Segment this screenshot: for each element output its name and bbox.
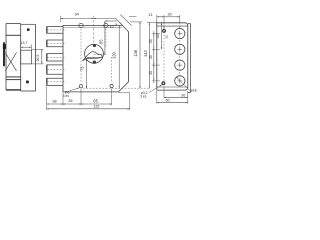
arrow 64 right at centerline	[92, 18, 94, 19]
bolt prong 4	[47, 65, 63, 74]
arrow 130 top	[119, 26, 120, 28]
leader o3,2 arrowhead	[160, 85, 162, 87]
front view: body outline	[63, 25, 129, 92]
dim line 55	[160, 23, 162, 50]
bolt circle 3 (ø18)	[175, 60, 185, 70]
ext tick at bolt level 33.5	[152, 33, 160, 35]
ext from chamfer bottom	[119, 92, 130, 94]
chain arrow up at 33.5	[153, 34, 154, 36]
arrow row1 far left	[47, 103, 49, 104]
arrow row1 at 81 left	[81, 103, 83, 104]
dim line chamfer row	[105, 20, 117, 22]
chain arrow up at 49.3	[153, 49, 154, 51]
arrow 26,5 bottom	[41, 62, 42, 64]
chain arrow down at 33.5	[153, 32, 154, 34]
svg-text:115: 115	[93, 104, 99, 109]
bolt prong 3 thick end cap	[46, 54, 48, 61]
arrow row1 far right	[109, 103, 111, 104]
cylinder horizontal centerline	[94, 54, 107, 56]
leader o18	[176, 77, 191, 92]
bolt circle 1 (ø18)	[175, 28, 185, 38]
left view: keyhole escutcheon box	[21, 50, 32, 64]
left view: top edge plate	[21, 23, 36, 25]
bolt 3 cross v	[179, 63, 181, 68]
ext segment top right of body	[129, 15, 137, 17]
callout leader 06	[70, 88, 80, 91]
arrow 55 top	[161, 23, 162, 25]
left view: plate right edge	[35, 24, 37, 91]
svg-text:130: 130	[112, 51, 117, 59]
arrow 64 left	[61, 18, 63, 19]
dim line 146	[139, 22, 141, 88]
dim line 26,5	[41, 49, 43, 64]
ext line 64 left	[60, 16, 62, 22]
bolt prong 1 dashed centerline	[48, 29, 66, 31]
svg-text:73: 73	[80, 66, 85, 71]
bolt prong 1	[47, 27, 63, 34]
dim line 30 top	[164, 16, 180, 18]
arrow 13 left	[157, 16, 159, 17]
arrow 13,7 left	[21, 47, 23, 48]
bolt prong 5 thick end cap	[46, 78, 48, 85]
bolt 4 cross v	[179, 79, 181, 84]
small circle bottom of cylinder	[93, 61, 96, 64]
dim line 130	[118, 26, 120, 89]
top screw hole right	[104, 23, 108, 27]
svg-text:142: 142	[143, 49, 148, 57]
arrow 73 bottom	[86, 86, 87, 88]
svg-text:ø18: ø18	[191, 88, 197, 92]
arrow 142 bottom	[149, 86, 150, 88]
top screw hole left	[79, 23, 83, 27]
svg-text:35: 35	[68, 99, 72, 103]
callout leader arrowhead	[77, 88, 79, 89]
svg-text:30: 30	[181, 93, 185, 97]
ext line 146 top	[130, 21, 142, 23]
svg-text:35: 35	[149, 71, 153, 75]
dashed centerline left holes	[80, 29, 82, 84]
arrow 65 top	[104, 21, 105, 23]
ext line from prong cap	[46, 86, 48, 110]
arrow row1 at 63 left	[63, 103, 65, 104]
ext line bottom right	[187, 91, 189, 104]
dim line 65	[104, 21, 106, 55]
chain arrow left at centerline	[94, 18, 96, 19]
ext line 26,5 top	[32, 48, 43, 50]
arrow 142 top	[149, 23, 150, 25]
bolt prong 5	[47, 78, 63, 85]
dim line 115	[47, 108, 130, 110]
bolt prong 2 dashed centerline	[48, 42, 66, 44]
svg-text:35: 35	[149, 39, 153, 43]
dashed centerline top right hole	[105, 29, 107, 48]
bottom screw hole right	[110, 84, 113, 87]
bolt 1 cross h	[178, 33, 183, 35]
svg-text:65: 65	[98, 39, 103, 44]
arrow 30 right	[178, 16, 180, 17]
bolt prong 3	[47, 54, 63, 61]
svg-text:13: 13	[148, 13, 152, 17]
left view: case left edge	[5, 24, 7, 90]
left view: plate bottom edge	[21, 90, 36, 92]
svg-text:3 es: 3 es	[140, 95, 147, 99]
ext line mid	[163, 15, 165, 25]
left view: inner line double 2	[6, 79, 21, 81]
front view: top-right chamfer	[120, 22, 129, 32]
chain arrow down at 80.9	[153, 79, 154, 81]
ext tick at bolt level 65.1	[152, 64, 160, 66]
dashed centerline bottom right hole	[111, 57, 113, 83]
cam inner line	[87, 56, 100, 58]
cylinder cam lever shape	[83, 52, 103, 61]
bolt 1 cross v	[179, 31, 181, 36]
chain arrow up at 65.1	[153, 65, 154, 67]
bolt prong 1 thick end cap	[46, 27, 48, 34]
left view: inner line upper	[6, 34, 21, 36]
arrow row1 at 81 right	[79, 103, 81, 104]
arrow 146 top	[139, 22, 140, 24]
screw hole donut top	[162, 29, 165, 32]
leader o18 arrowhead	[176, 77, 178, 79]
bolt 2 cross h	[178, 48, 183, 50]
svg-text:26,5: 26,5	[36, 55, 40, 62]
cylinder vertical centerline upper	[93, 16, 95, 43]
arrow 13 right	[162, 16, 164, 17]
left view: dark weld bar on left edge	[3, 43, 5, 67]
ext line 13 left	[156, 15, 158, 22]
dashed centerline screws	[163, 25, 165, 85]
arrow 60 right	[186, 102, 188, 103]
arrow 115 left	[47, 108, 49, 109]
arrow 60 left	[157, 102, 159, 103]
arrow 65 bottom	[104, 53, 105, 55]
ext tick at bolt level 49.3	[152, 48, 160, 50]
arrow 146 bottom	[139, 86, 140, 88]
chain arrow up at 80.9	[153, 81, 154, 83]
bolt 3 cross h	[178, 64, 183, 66]
ext tick at bolt level 80.9	[152, 80, 160, 82]
svg-text:64: 64	[75, 13, 79, 17]
leader o3,2	[149, 85, 162, 93]
ext line body right bottom	[129, 93, 131, 110]
cylinder big circle	[85, 44, 104, 63]
svg-text:35: 35	[165, 35, 169, 39]
screw hole donut bottom center	[163, 83, 164, 84]
arrow 13,7 right	[29, 47, 31, 48]
dim line 35 chain	[153, 34, 155, 81]
dim line 64 row	[61, 17, 116, 19]
svg-text:146: 146	[133, 49, 138, 57]
right view: case outline	[157, 23, 188, 90]
down arrow onto bolt line	[179, 26, 180, 28]
ext line bottom 60 left	[156, 91, 158, 104]
dim line 13,7	[21, 46, 32, 48]
arrow 115 right	[128, 108, 130, 109]
row B left arrow	[106, 21, 108, 22]
right view: lid lip line	[157, 25, 188, 27]
bolt prong 4 thick end cap	[46, 65, 48, 74]
dim line 142	[148, 23, 150, 89]
ext line 142 top	[147, 22, 157, 24]
ext line bottom hole left	[80, 89, 82, 106]
arrow 55 bottom	[161, 47, 162, 49]
svg-text:13,7: 13,7	[20, 41, 27, 45]
chain arrow down at 49.3	[153, 47, 154, 49]
front view: lid lip faint line	[63, 26, 122, 28]
small circle top of cylinder	[93, 44, 96, 47]
bolt prong 5 dashed centerline	[48, 81, 66, 83]
ext line 30 right	[179, 15, 181, 24]
bolt 2 cross v	[179, 47, 181, 52]
arrow 130 bottom	[119, 86, 120, 88]
dim line row1	[47, 103, 112, 105]
parallel ext diagonal for chamfer dim	[120, 15, 131, 26]
bolt circle 4 (ø18)	[175, 76, 185, 86]
svg-text:60: 60	[165, 99, 169, 103]
ext line 26,5 bottom	[32, 63, 43, 65]
arrow row1 at 63 right	[61, 103, 63, 104]
left view: case/plate divider	[20, 24, 22, 91]
dim line 13	[157, 16, 164, 18]
bolt prong 2	[47, 40, 63, 47]
svg-text:10: 10	[110, 25, 114, 29]
bolt circle 2 (ø18)	[175, 44, 185, 54]
ext line 13,7	[30, 45, 32, 51]
screw hole donut top center	[163, 30, 164, 31]
svg-text:35: 35	[149, 55, 153, 59]
left view: X-cross diagonal 1	[5, 53, 16, 72]
arrow 30 bottom left	[164, 97, 166, 98]
ext line body left bottom	[62, 93, 64, 105]
svg-text:4 es: 4 es	[63, 94, 70, 98]
bolt prong 2 thick end cap	[46, 40, 48, 47]
chamfer extension up	[116, 18, 120, 22]
bolt prong 3 dashed centerline	[48, 56, 66, 58]
arrow 26,5 top	[41, 49, 42, 51]
screw hole donut bottom	[162, 82, 165, 85]
svg-text:55: 55	[156, 34, 160, 38]
svg-text:30: 30	[167, 13, 171, 17]
ext line bottom 30 left	[163, 87, 165, 99]
left view: top edge case	[6, 23, 21, 25]
right view: lid lip line bottom	[157, 86, 188, 88]
bolt prong 4 dashed centerline	[48, 69, 66, 71]
left view: inner line double 1	[6, 76, 21, 78]
dim line 60	[157, 102, 188, 104]
dashed centerline through bottom holes	[83, 87, 151, 89]
dim line 73	[86, 59, 88, 88]
left view: black dot upper	[27, 29, 29, 31]
right view: front plate strip	[188, 23, 191, 92]
arrow 30 bottom right	[186, 97, 188, 98]
dashed centerline bolts	[179, 27, 181, 86]
left view: dark clump on bar	[3, 44, 6, 48]
arrow 73 top	[86, 59, 87, 61]
left view: black dot lower	[26, 81, 28, 83]
arrow into chamfer	[115, 23, 117, 25]
chain arrow down at 65.1	[153, 63, 154, 65]
left view: case bottom thick edge	[6, 89, 21, 91]
svg-text:38: 38	[52, 100, 56, 104]
ext line bottom hole right	[111, 88, 113, 105]
down arrow onto screw line	[163, 27, 164, 29]
bolt 4 cross h	[178, 80, 183, 82]
dim line 30 bottom	[164, 96, 188, 98]
bottom screw hole left	[79, 85, 82, 88]
left view: X-cross diagonal 2	[5, 53, 16, 72]
